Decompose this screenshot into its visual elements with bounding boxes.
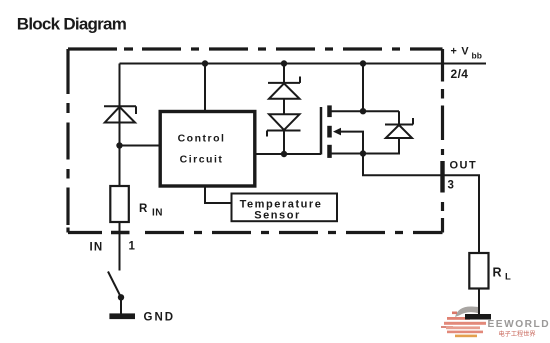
svg-text:IN: IN <box>90 242 104 254</box>
wire switch to ground <box>120 297 122 314</box>
label R_L <box>493 266 512 283</box>
channel segment body <box>327 126 332 138</box>
ground GND left <box>109 313 135 319</box>
wire node to control circuit left <box>120 145 161 147</box>
svg-text:Block Diagram: Block Diagram <box>17 14 127 33</box>
label R_IN <box>139 203 163 219</box>
wire body diode bottom to source <box>363 138 399 154</box>
gray swoosh <box>455 306 480 317</box>
IC boundary dashed left edge <box>66 49 69 233</box>
svg-text:bb: bb <box>472 51 482 61</box>
wire input branch vertical <box>119 64 121 187</box>
zener diode Z1 gate clamp upper <box>268 77 300 99</box>
wire +Vbb supply rail <box>120 63 487 65</box>
svg-text:OUT: OUT <box>450 160 478 172</box>
IC boundary dashed right edge <box>441 49 444 233</box>
junction source node <box>360 150 366 156</box>
junction rail-zener <box>281 60 287 66</box>
wire body to source <box>340 132 363 154</box>
wire source line <box>331 153 363 155</box>
svg-text:电子工程世界: 电子工程世界 <box>499 330 536 338</box>
red stripe logo mark <box>452 312 457 315</box>
resistor R_IN <box>110 186 129 222</box>
svg-text:GND: GND <box>144 312 176 324</box>
label +Vbb <box>451 46 482 61</box>
diode body diode <box>385 118 413 138</box>
temperature sensor block <box>232 194 338 222</box>
IC boundary dashed top edge <box>68 47 443 50</box>
wire rail to control circuit top <box>204 64 206 113</box>
wire body diode branch <box>398 111 400 124</box>
junction rail-drain <box>360 60 366 66</box>
zener diode input clamp <box>104 106 136 122</box>
svg-text:3: 3 <box>448 180 454 192</box>
channel segment drain <box>327 105 332 117</box>
wire OUT line <box>363 154 479 254</box>
wire drain line <box>331 110 399 112</box>
junction drain node <box>360 108 366 114</box>
junction input node <box>116 142 122 148</box>
wire zener branch top <box>283 64 285 84</box>
ground right under R_L <box>465 314 491 320</box>
junction rail-control <box>202 60 208 66</box>
svg-text:L: L <box>505 272 511 283</box>
wire R_L to ground <box>478 289 480 316</box>
svg-text:Sensor: Sensor <box>254 209 301 221</box>
EEWORLD watermark logo <box>441 306 550 338</box>
svg-text:+ V: + V <box>451 46 470 58</box>
body arrow <box>333 128 341 136</box>
wire rail to drain <box>362 64 364 112</box>
wire R_IN to pin 1 <box>119 222 121 271</box>
IC boundary dashed bottom edge <box>68 231 443 234</box>
wire zener branch bottom <box>283 131 285 155</box>
svg-text:IN: IN <box>152 208 163 219</box>
wire between zeners <box>283 99 285 115</box>
junction switch pivot <box>118 294 124 300</box>
svg-text:1: 1 <box>129 241 136 253</box>
pin 1 tick <box>111 231 130 235</box>
svg-text:R: R <box>139 203 148 215</box>
svg-text:2/4: 2/4 <box>451 67 469 81</box>
transistor Q1 power MOSFET <box>321 105 341 157</box>
svg-text:Control: Control <box>178 133 226 145</box>
junction zener-gate <box>281 151 287 157</box>
gate electrode bar <box>320 107 323 155</box>
control circuit block U1 <box>160 112 255 187</box>
switch S1 <box>108 272 121 298</box>
wire control bottom to temperature sensor <box>205 186 232 203</box>
wire gate line from control circuit <box>255 153 322 155</box>
pin 3 tick <box>440 161 444 193</box>
resistor R_L <box>469 253 488 289</box>
channel segment source <box>327 145 332 158</box>
svg-text:R: R <box>493 266 502 280</box>
svg-text:EEWORLD: EEWORLD <box>488 319 550 330</box>
svg-text:Circuit: Circuit <box>180 154 224 166</box>
zener diode Z2 gate clamp lower <box>267 114 301 136</box>
